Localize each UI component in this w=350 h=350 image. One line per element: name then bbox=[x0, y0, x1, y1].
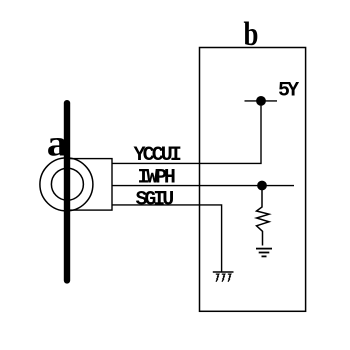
sensor inner circle bbox=[51, 168, 83, 200]
pin wire VCCUI bbox=[112, 101, 261, 163]
svg-text:b: b bbox=[244, 15, 259, 53]
pin wire IWPH bbox=[112, 185, 294, 187]
5V supply stub bbox=[245, 100, 278, 102]
node: IWPH junction dot bbox=[257, 181, 267, 191]
svg-text:YCCUI: YCCUI bbox=[134, 144, 181, 167]
pin wire SGIU bbox=[112, 205, 222, 272]
box b bbox=[200, 48, 306, 312]
sensor outer circle bbox=[40, 158, 93, 211]
resistor R (pull-down) bbox=[257, 190, 270, 246]
svg-text:a: a bbox=[47, 123, 68, 164]
ground (chassis/hatched) for SGIU bbox=[213, 272, 234, 282]
svg-text:SGIU: SGIU bbox=[136, 188, 174, 211]
primary conductor wire (thick) bbox=[64, 100, 70, 284]
sensor body rectangle bbox=[67, 159, 112, 211]
ground (earth) under resistor bbox=[256, 249, 272, 257]
svg-text:5Y: 5Y bbox=[278, 80, 299, 103]
node: 5V junction dot bbox=[256, 96, 266, 106]
svg-text:IWPH: IWPH bbox=[138, 167, 175, 190]
